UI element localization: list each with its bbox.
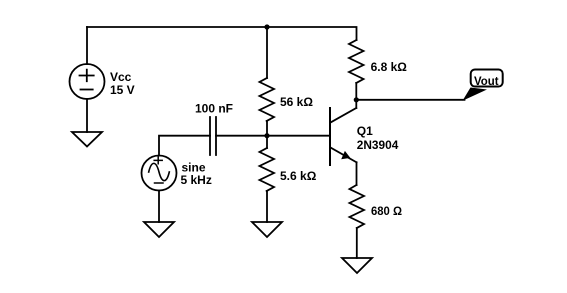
arrowhead Q1 emitter bbox=[341, 151, 350, 159]
junction dot top rail bbox=[264, 24, 269, 29]
minus sign V1 bbox=[81, 89, 93, 91]
svg-text:680 Ω: 680 Ω bbox=[371, 204, 402, 218]
wire Vcc top lead bbox=[86, 27, 88, 64]
transistor Q1 base bar bbox=[329, 108, 331, 165]
minus sign V2 bbox=[155, 182, 164, 184]
resistor R3 6.8k zigzag bbox=[349, 40, 364, 83]
Vout callout box bbox=[471, 70, 503, 87]
wire capacitor to base node bbox=[216, 135, 330, 137]
wire sine bottom lead bbox=[158, 191, 160, 223]
plus sign V1 bbox=[80, 70, 94, 82]
wire top rail bbox=[87, 27, 357, 40]
wire middle branch upper lead bbox=[266, 27, 268, 78]
svg-text:15 V: 15 V bbox=[110, 83, 135, 97]
svg-text:2N3904: 2N3904 bbox=[357, 138, 399, 152]
ground G4 under R4 bbox=[342, 258, 372, 273]
resistor R1 56k zigzag bbox=[260, 78, 275, 121]
capacitor C1 plates bbox=[210, 117, 216, 155]
wire emitter diagonal Q1 bbox=[331, 148, 357, 163]
wire emitter vertical lead bbox=[356, 162, 358, 185]
source V1 Vcc circle bbox=[70, 64, 105, 99]
resistor R4 680 zigzag bbox=[350, 185, 365, 228]
Vout callout pointer bbox=[463, 88, 488, 101]
plus sign V2 bbox=[154, 157, 162, 164]
junction dot base node bbox=[264, 133, 269, 138]
svg-text:Q1: Q1 bbox=[357, 124, 373, 138]
wire collector diagonal Q1 bbox=[331, 108, 357, 123]
wire Vout output bbox=[356, 99, 464, 101]
wire R2 bottom lead bbox=[266, 191, 268, 222]
wire R3 bottom to collector node bbox=[355, 83, 357, 108]
source V2 sine circle bbox=[142, 156, 177, 191]
ground G1 under Vcc bbox=[72, 132, 102, 147]
sine wave glyph bbox=[149, 163, 170, 180]
wire Vcc bottom lead bbox=[86, 99, 88, 132]
resistor R2 5.6k zigzag bbox=[260, 148, 275, 191]
svg-text:Vcc: Vcc bbox=[110, 70, 132, 84]
svg-text:100 nF: 100 nF bbox=[195, 102, 233, 116]
wire sine to capacitor bbox=[159, 136, 210, 156]
svg-text:5.6 kΩ: 5.6 kΩ bbox=[280, 169, 317, 183]
ground G3 under sine bbox=[144, 222, 174, 237]
svg-text:5 kHz: 5 kHz bbox=[181, 173, 212, 187]
svg-text:Vout: Vout bbox=[474, 74, 499, 88]
svg-text:56 kΩ: 56 kΩ bbox=[280, 95, 313, 109]
ground G2 under R2 bbox=[252, 222, 282, 237]
wire R4 bottom lead bbox=[356, 228, 358, 258]
junction dot collector node bbox=[354, 97, 359, 102]
wire between R1 and R2 bbox=[266, 121, 268, 148]
svg-text:6.8 kΩ: 6.8 kΩ bbox=[371, 60, 408, 74]
